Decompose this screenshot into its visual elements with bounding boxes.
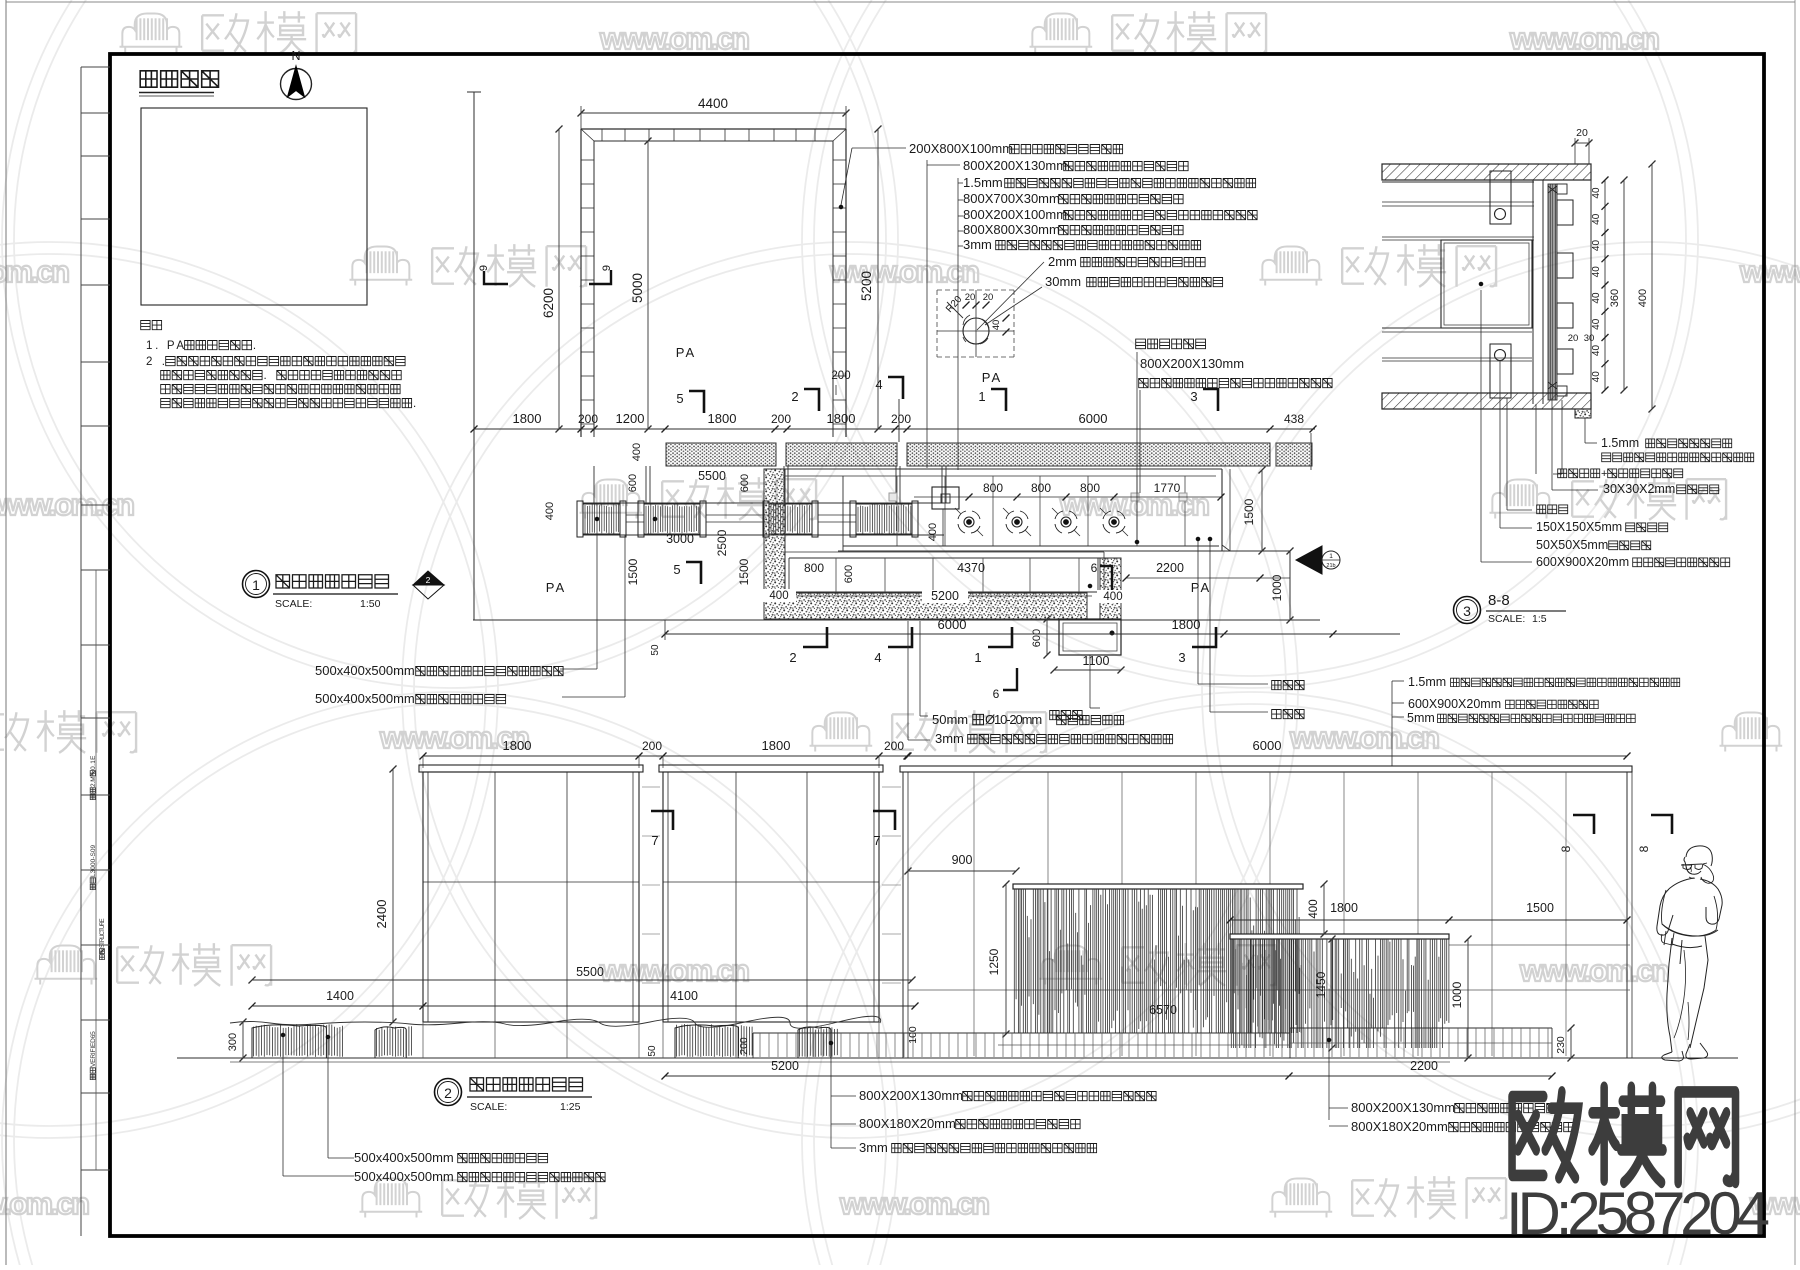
svg-text:4: 4 — [875, 377, 882, 392]
svg-text:ID:2587204: ID:2587204 — [1506, 1180, 1770, 1247]
north arrow — [281, 69, 312, 100]
svg-text:200: 200 — [771, 412, 791, 426]
svg-text:800: 800 — [1031, 481, 1051, 495]
label paishuikou right — [1272, 681, 1304, 690]
svg-text:1100: 1100 — [1083, 654, 1110, 668]
svg-text:1250: 1250 — [987, 948, 1001, 975]
svg-text:200: 200 — [578, 412, 598, 426]
svg-text:4370: 4370 — [957, 561, 985, 575]
svg-text:PA: PA — [1191, 580, 1211, 595]
leader 1140 — [1139, 390, 1141, 493]
svg-text:5500: 5500 — [576, 965, 604, 979]
waterfall slab 1 — [1013, 884, 1303, 889]
svg-text:500x400x500mm: 500x400x500mm — [354, 1169, 454, 1184]
left arrow marker — [1296, 546, 1322, 574]
outlet leader — [1089, 655, 1091, 708]
svg-text:400: 400 — [1308, 899, 1320, 918]
gray tile markers — [889, 493, 897, 501]
svg-text:3mm: 3mm — [859, 1140, 888, 1155]
svg-text:1770: 1770 — [1154, 481, 1181, 495]
svg-text:360: 360 — [1609, 289, 1621, 307]
elev dim 5200 2200 — [665, 1075, 1552, 1077]
section tile rect — [1441, 240, 1532, 328]
svg-text:8-8: 8-8 — [1488, 592, 1510, 609]
bench A — [753, 1032, 1290, 1034]
svg-text:3: 3 — [1463, 603, 1471, 619]
svg-text:2mm: 2mm — [1048, 254, 1077, 269]
svg-text:4100: 4100 — [670, 989, 698, 1003]
dim 400 sand left — [763, 589, 796, 602]
elev title — [470, 1078, 583, 1091]
channel tile joints — [835, 558, 837, 592]
svg-text:500x400x500mm: 500x400x500mm — [354, 1150, 454, 1165]
svg-text:6570: 6570 — [1149, 1003, 1177, 1017]
svg-text:1800: 1800 — [513, 411, 542, 426]
rock labels leaders — [282, 1037, 284, 1176]
leader vertical 927 — [926, 160, 928, 468]
rock label leader U2 — [562, 696, 625, 698]
pool top edge — [785, 468, 1222, 470]
leader 2mm — [977, 262, 1044, 330]
channel outline — [789, 557, 1101, 559]
svg-text:www.om.cn: www.om.cn — [1739, 254, 1800, 289]
drain dots — [1196, 537, 1200, 541]
pebble leader — [919, 621, 921, 716]
fountain row bottom — [843, 545, 1219, 547]
rock leader dots — [595, 517, 599, 521]
svg-text:5: 5 — [673, 562, 680, 577]
svg-text:3: 3 — [1178, 650, 1185, 665]
svg-text:40: 40 — [1591, 371, 1602, 383]
curtain labels leader — [1328, 1042, 1330, 1120]
svg-text:1800: 1800 — [762, 738, 791, 753]
svg-text:1400: 1400 — [326, 989, 354, 1003]
dim 1800 1500 line — [1230, 919, 1627, 921]
fountain jets — [964, 517, 974, 527]
detail blowup box — [937, 289, 1014, 291]
section top hatch slab — [1382, 164, 1591, 180]
svg-text:www.om.cn: www.om.cn — [829, 254, 982, 289]
svg-text:1500: 1500 — [626, 558, 640, 585]
svg-text:7: 7 — [873, 833, 880, 848]
svg-text:1800: 1800 — [1330, 901, 1358, 915]
svg-text:3000: 3000 — [666, 532, 694, 546]
label below — [1139, 379, 1332, 388]
outlet box — [1059, 619, 1121, 655]
dim 5200 plan — [922, 590, 968, 603]
label fountain — [1136, 339, 1206, 349]
leader line label1 — [852, 147, 906, 149]
drain leaders — [1197, 541, 1199, 684]
pool sand border bottom strip — [764, 593, 1087, 619]
svg-text:1500: 1500 — [1526, 901, 1554, 915]
elev top dim chain — [423, 755, 908, 757]
section mark 8 a — [1573, 815, 1594, 834]
ground line — [177, 1057, 1738, 1059]
svg-text:1: 1 — [252, 577, 260, 593]
svg-text:STRUCTURE: STRUCTURE — [100, 918, 106, 948]
svg-text:40: 40 — [1591, 292, 1602, 304]
svg-text:40: 40 — [1591, 345, 1602, 357]
title block strip — [80, 67, 82, 1236]
paving strip C — [907, 443, 1270, 466]
svg-text:50: 50 — [647, 1045, 658, 1057]
svg-text:+: + — [1601, 468, 1607, 480]
svg-text:200: 200 — [642, 739, 662, 753]
svg-text:800X200X130mm: 800X200X130mm — [963, 158, 1067, 173]
svg-text:200: 200 — [831, 370, 850, 382]
svg-text:1800: 1800 — [708, 411, 737, 426]
dim 5200 plan — [877, 129, 879, 429]
leader vertical 958 — [957, 178, 959, 470]
svg-text:www.om.cn: www.om.cn — [599, 953, 752, 988]
svg-text:30mm: 30mm — [1045, 274, 1081, 289]
svg-text:6200: 6200 — [541, 288, 556, 318]
svg-text:20: 20 — [1576, 127, 1588, 139]
dim chain 40s — [1604, 180, 1606, 390]
planter wall plan (U shape) — [581, 128, 846, 130]
dim 400 sand right — [1097, 590, 1130, 603]
section steel tubes — [1557, 200, 1573, 225]
vertical 438 — [1310, 433, 1312, 470]
svg-text:40: 40 — [1591, 318, 1602, 330]
svg-text:1800: 1800 — [1172, 617, 1201, 632]
dim 6200 — [558, 129, 560, 429]
channel dot — [1088, 584, 1092, 588]
svg-text:400: 400 — [1637, 289, 1649, 307]
svg-text:2400: 2400 — [374, 900, 389, 929]
svg-text:500x400x500mm: 500x400x500mm — [315, 663, 415, 678]
svg-text:SCALE:: SCALE: — [1488, 613, 1525, 625]
dim 5000 — [647, 141, 649, 429]
section mark 7 b — [873, 811, 895, 830]
bottom dim chain 6000 1800 — [665, 633, 1400, 635]
svg-text:N: N — [291, 49, 300, 63]
waterfall curtain 2 — [1231, 939, 1449, 1048]
dim 1000 right — [1289, 551, 1291, 620]
panel 2 — [659, 765, 883, 772]
svg-text:40: 40 — [1591, 187, 1602, 199]
svg-text:400: 400 — [769, 590, 788, 602]
svg-text:Ø10-20mm: Ø10-20mm — [985, 712, 1042, 727]
dim 1450 — [1331, 939, 1333, 1048]
svg-text:5200: 5200 — [771, 1059, 799, 1073]
notes text — [141, 321, 162, 330]
svg-text:.: . — [413, 398, 416, 410]
svg-text:800X200X130mm: 800X200X130mm — [859, 1088, 963, 1103]
svg-text:800X200X130mm: 800X200X130mm — [1140, 356, 1244, 371]
svg-text:8: 8 — [1559, 845, 1573, 852]
svg-text:150X150X5mm: 150X150X5mm — [1536, 520, 1622, 534]
svg-text:2200: 2200 — [1410, 1059, 1438, 1073]
pool sand border left column — [764, 469, 785, 601]
svg-text:5mm: 5mm — [1407, 711, 1435, 725]
elev dim 6000 — [907, 755, 1627, 757]
svg-text:1:25: 1:25 — [560, 1101, 581, 1113]
svg-text:3mm: 3mm — [963, 237, 992, 252]
svg-text:www.om.cn: www.om.cn — [599, 21, 752, 56]
svg-text:100: 100 — [907, 1026, 919, 1044]
svg-text:5500: 5500 — [698, 469, 726, 483]
dim 2400 — [392, 769, 394, 1022]
svg-text:SCALE:: SCALE: — [470, 1101, 507, 1113]
fountain box — [932, 487, 959, 509]
svg-text:21b: 21b — [1326, 563, 1335, 569]
svg-text:200: 200 — [738, 1037, 750, 1055]
svg-text:20: 20 — [1568, 333, 1579, 344]
svg-text:800: 800 — [983, 481, 1003, 495]
svg-text:1: 1 — [1329, 553, 1333, 560]
elev dim 1400 4100 — [252, 1005, 915, 1007]
plan title circle — [243, 571, 270, 598]
dim 1000 elev — [1467, 939, 1469, 1058]
svg-text:2.M: 2.M — [90, 776, 97, 787]
svg-text:VERIFIED65: VERIFIED65 — [90, 1031, 97, 1067]
svg-text:50mm: 50mm — [932, 712, 968, 727]
waterfall slab 2 — [1230, 934, 1449, 939]
svg-text:30X30X2mm: 30X30X2mm — [1603, 482, 1675, 496]
path edge lines between rocks — [626, 514, 644, 516]
plan title — [276, 575, 389, 588]
dim 1250 — [1005, 884, 1007, 1034]
svg-text:1800: 1800 — [827, 411, 856, 426]
svg-text:2: 2 — [444, 1085, 452, 1101]
svg-text:1:5: 1:5 — [1532, 613, 1547, 625]
svg-text:www.om.cn: www.om.cn — [839, 1186, 992, 1221]
panel 1 — [419, 765, 643, 772]
svg-text:L3000-S09: L3000-S09 — [90, 844, 97, 877]
svg-text:1500: 1500 — [737, 558, 751, 585]
dim line 2200 right — [1126, 577, 1290, 579]
svg-text:0.1E: 0.1E — [90, 755, 97, 770]
svg-text:www.om.cn: www.om.cn — [1519, 953, 1672, 988]
wall joints — [973, 772, 975, 1056]
svg-text:2: 2 — [791, 389, 798, 404]
label paishuikou center — [1050, 711, 1082, 720]
dim 400 waterfall — [1323, 884, 1325, 934]
svg-text:6: 6 — [1091, 561, 1098, 575]
paving strip D — [1276, 443, 1312, 466]
section metal strip — [1548, 184, 1557, 400]
leader fountain light — [1136, 352, 1138, 540]
rock label leader U1 — [560, 668, 597, 670]
elev rocks — [254, 1024, 343, 1057]
svg-text:800X200X130mm: 800X200X130mm — [1351, 1100, 1455, 1115]
svg-text:www.om.cn: www.om.cn — [1289, 720, 1442, 755]
person figure — [1684, 846, 1712, 874]
svg-text:50: 50 — [650, 644, 661, 656]
section bottom hatch slab — [1382, 393, 1591, 409]
svg-text:30: 30 — [1584, 333, 1595, 344]
svg-text:600: 600 — [739, 474, 751, 492]
wavy rock top line — [230, 1016, 881, 1028]
svg-text:230: 230 — [1555, 1036, 1567, 1054]
svg-text:www.om.cn: www.om.cn — [0, 1186, 92, 1221]
svg-text:www.om.cn: www.om.cn — [0, 487, 137, 522]
svg-text:400: 400 — [1103, 591, 1122, 603]
svg-text:1.5mm: 1.5mm — [963, 175, 1003, 190]
section fixture top — [1490, 171, 1511, 224]
section outer face — [1590, 164, 1592, 409]
section label 2 — [1602, 453, 1754, 462]
section leaders — [1480, 290, 1482, 562]
dim 600 outlet — [1046, 619, 1048, 655]
dim 4400 — [580, 106, 582, 129]
svg-text:1450: 1450 — [1314, 971, 1328, 998]
dim chain 1800-200-1200 — [474, 428, 1315, 430]
section label 5 — [1537, 505, 1568, 514]
wall posts below strips — [645, 466, 647, 503]
svg-text:800X800X30mm: 800X800X30mm — [963, 222, 1060, 237]
svg-text:1: 1 — [978, 389, 985, 404]
svg-text:600: 600 — [1031, 629, 1043, 647]
panel mullion feet — [422, 1022, 424, 1058]
svg-text:1: 1 — [974, 650, 981, 665]
svg-text:400: 400 — [631, 443, 643, 461]
plan left boundary line — [473, 92, 475, 620]
svg-text:2500: 2500 — [715, 529, 729, 556]
svg-text:8: 8 — [1637, 845, 1651, 852]
svg-text:6000: 6000 — [938, 617, 967, 632]
upper pool left edge — [842, 476, 844, 551]
elev dim 5500 — [252, 979, 912, 981]
svg-text:600: 600 — [843, 565, 855, 583]
svg-text:40: 40 — [991, 320, 1002, 331]
svg-text:PA: PA — [546, 580, 566, 595]
svg-text:400: 400 — [544, 502, 556, 520]
view marker diamond — [413, 571, 444, 585]
svg-text:SCALE:: SCALE: — [275, 598, 312, 610]
svg-text:600X900X20mm: 600X900X20mm — [1408, 697, 1501, 711]
section title circle — [1454, 597, 1481, 624]
svg-text:1500: 1500 — [1242, 498, 1256, 525]
svg-text:5200: 5200 — [931, 589, 959, 603]
dim chain 800x3 1770 — [914, 496, 1221, 498]
section top lines — [1382, 181, 1534, 183]
svg-text:600: 600 — [627, 474, 639, 492]
svg-text:6000: 6000 — [1253, 738, 1282, 753]
svg-text:200: 200 — [884, 739, 904, 753]
elev right labels leaders — [1391, 681, 1393, 766]
svg-text:3: 3 — [1190, 389, 1197, 404]
elev rock dots — [281, 1033, 285, 1037]
section fixture bottom — [1490, 344, 1511, 398]
elev bottom-left labels leader — [830, 1045, 832, 1148]
dim 400 — [1651, 164, 1653, 409]
svg-text:www.om.cn: www.om.cn — [1509, 21, 1662, 56]
dim 1500 right — [1261, 470, 1263, 551]
svg-text:1.5mm: 1.5mm — [1601, 436, 1639, 450]
svg-text:PA: PA — [676, 345, 696, 360]
section stone panel — [1532, 180, 1534, 404]
pool tile joints upper — [896, 476, 898, 546]
svg-text:400: 400 — [927, 523, 939, 541]
svg-text:200X800X100mm: 200X800X100mm — [909, 141, 1013, 156]
pool right edge — [1221, 469, 1223, 551]
svg-text:4: 4 — [874, 650, 881, 665]
svg-text:9: 9 — [478, 265, 490, 271]
index plan title — [140, 71, 218, 87]
svg-text:50X50X5mm: 50X50X5mm — [1536, 538, 1608, 552]
svg-text:1000: 1000 — [1450, 981, 1464, 1008]
big wall — [900, 766, 1632, 772]
section mid lines — [1382, 327, 1532, 329]
svg-text:2: 2 — [426, 575, 431, 585]
svg-text:20: 20 — [983, 292, 994, 303]
svg-text:40: 40 — [1591, 266, 1602, 278]
steel leader — [907, 621, 909, 740]
svg-text:2200: 2200 — [1156, 561, 1184, 575]
bench B — [1290, 1027, 1552, 1029]
svg-text:600X900X20mm: 600X900X20mm — [1536, 555, 1629, 569]
svg-text:200: 200 — [891, 412, 911, 426]
svg-text:.: . — [253, 340, 256, 352]
page thin border — [5, 0, 7, 1265]
svg-text:6000: 6000 — [1079, 411, 1108, 426]
pillar ticks between panels — [642, 786, 660, 788]
svg-text:2: 2 — [789, 650, 796, 665]
svg-text:5: 5 — [676, 391, 683, 406]
label jinshuikou — [1272, 710, 1304, 719]
rock blocks plan — [583, 504, 620, 534]
waterfall curtain 1 — [1014, 889, 1301, 1033]
svg-text:.: . — [264, 370, 267, 382]
pool step right — [1222, 550, 1290, 552]
svg-text:1200: 1200 — [616, 411, 645, 426]
svg-text:PA: PA — [982, 370, 1002, 385]
svg-text:800X700X30mm: 800X700X30mm — [963, 191, 1060, 206]
elev title circle — [435, 1079, 462, 1106]
svg-text:3mm: 3mm — [935, 731, 964, 746]
svg-text:1000: 1000 — [1270, 574, 1284, 601]
paving strip B — [786, 443, 897, 466]
index plan box — [141, 108, 367, 305]
site logo omwang — [1512, 1087, 1735, 1182]
svg-text:438: 438 — [1284, 412, 1304, 426]
svg-text:40: 40 — [1591, 240, 1602, 252]
svg-text:1.5mm: 1.5mm — [1408, 675, 1446, 689]
dim 230 — [1570, 1028, 1572, 1058]
dim 360 — [1623, 180, 1625, 390]
svg-text:5200: 5200 — [859, 271, 874, 301]
svg-text:800: 800 — [1080, 481, 1100, 495]
section mark 7 a — [651, 811, 673, 830]
dim 300 — [242, 1022, 244, 1058]
svg-text:800X180X20mm: 800X180X20mm — [1351, 1119, 1448, 1134]
svg-text:800X180X20mm: 800X180X20mm — [859, 1116, 956, 1131]
svg-text:7: 7 — [651, 833, 658, 848]
svg-text:6: 6 — [993, 687, 1000, 701]
paving strip A — [666, 443, 776, 466]
svg-text:300: 300 — [227, 1033, 239, 1051]
svg-text:900: 900 — [952, 853, 973, 867]
dim 20 top — [1574, 138, 1576, 164]
svg-text:4400: 4400 — [698, 96, 728, 111]
svg-text:1800: 1800 — [503, 738, 532, 753]
rock strip row top edge — [583, 502, 944, 504]
svg-text:www.om.cn: www.om.cn — [0, 254, 72, 289]
svg-text:800: 800 — [804, 561, 824, 575]
svg-text:1:50: 1:50 — [360, 598, 381, 610]
svg-text:5000: 5000 — [630, 273, 645, 303]
dim 1100 — [1054, 669, 1121, 671]
svg-text:800X200X100mm: 800X200X100mm — [963, 207, 1067, 222]
cut 6 bracket — [1100, 566, 1112, 590]
svg-text:500x400x500mm: 500x400x500mm — [315, 691, 415, 706]
pool sand border right column — [1100, 558, 1121, 619]
svg-text:20: 20 — [965, 292, 976, 303]
svg-text:40: 40 — [1591, 213, 1602, 225]
